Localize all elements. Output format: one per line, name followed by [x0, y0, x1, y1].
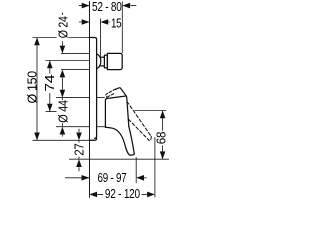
69-97 tails: [65, 177, 147, 179]
dashed paddle (open position): [106, 89, 116, 97]
69-97 right ext: [135, 157, 137, 183]
92-120 arrows (inside): [89, 192, 97, 198]
52-80 arrows: [82, 3, 90, 9]
dimension texts: [25, 0, 169, 201]
dia150 arrows: [34, 38, 40, 46]
dome cap: [97, 54, 101, 69]
handle hub: [105, 96, 128, 127]
68 dim line: [162, 111, 164, 160]
escutcheon plate: [89, 38, 96, 139]
dim 52-80 tails: [79, 5, 137, 7]
bottom common ext line: [69, 158, 169, 160]
svg-text:Ø 150: Ø 150: [25, 71, 40, 104]
74 arrows: [47, 61, 53, 69]
dimension linework: [33, 2, 169, 198]
svg-text:27: 27: [71, 143, 86, 155]
92-120 line segments: [97, 193, 147, 195]
68 arrows: [160, 111, 166, 119]
arrowheads: [34, 3, 165, 197]
dia150 ext bottom / plate bottom / 27 ext: [33, 139, 95, 141]
68 ext top: [134, 110, 166, 112]
74 ext top: [46, 60, 90, 62]
dim 74 line (in-line stubs): [49, 61, 51, 112]
dashed grip (open position) upper edge: [127, 102, 151, 137]
wall line: [89, 2, 91, 198]
15 arrows: [82, 19, 90, 25]
ext line right of 52-80: [121, 2, 123, 54]
neck: [101, 57, 105, 66]
27 arrows (outside): [76, 133, 82, 141]
grip right edge: [129, 126, 134, 153]
white mask behind dia24 text: [57, 15, 69, 40]
92-120 right ext: [154, 137, 156, 197]
solid paddle (lever ridge): [115, 88, 126, 96]
svg-text:92 - 120: 92 - 120: [105, 186, 140, 200]
svg-text:Ø 24: Ø 24: [56, 16, 71, 38]
svg-text:68: 68: [153, 132, 168, 144]
dia44 arrows (outside): [60, 90, 66, 98]
dashed grip lower edge: [129, 119, 150, 140]
dia24 ext lines: [61, 53, 89, 69]
svg-text:Ø 44: Ø 44: [56, 100, 71, 123]
dia150 ext top: [33, 37, 90, 39]
dia44 ext lines: [56, 98, 105, 127]
dashed paddle lower edge: [108, 94, 115, 97]
dia24 chain stubs: [61, 13, 63, 137]
69-97 arrows (outside): [82, 175, 90, 181]
dia24 arrows (outside): [60, 46, 66, 54]
svg-text:69 - 97: 69 - 97: [98, 170, 127, 185]
74 ext bottom: [46, 111, 57, 113]
grip end cap: [129, 153, 134, 155]
svg-text:15: 15: [111, 16, 122, 31]
knob: [107, 53, 122, 69]
dashed grip tip cap: [149, 136, 151, 140]
dia150 dim line: [36, 38, 38, 141]
27 stubs: [78, 129, 80, 172]
grip (lever, closed) left edge: [105, 127, 128, 154]
ring: [104, 55, 107, 68]
svg-text:74: 74: [42, 75, 57, 92]
svg-text:52 - 80: 52 - 80: [92, 0, 122, 14]
ext line right of 15: [100, 19, 102, 58]
dim 15 tails: [79, 21, 110, 23]
